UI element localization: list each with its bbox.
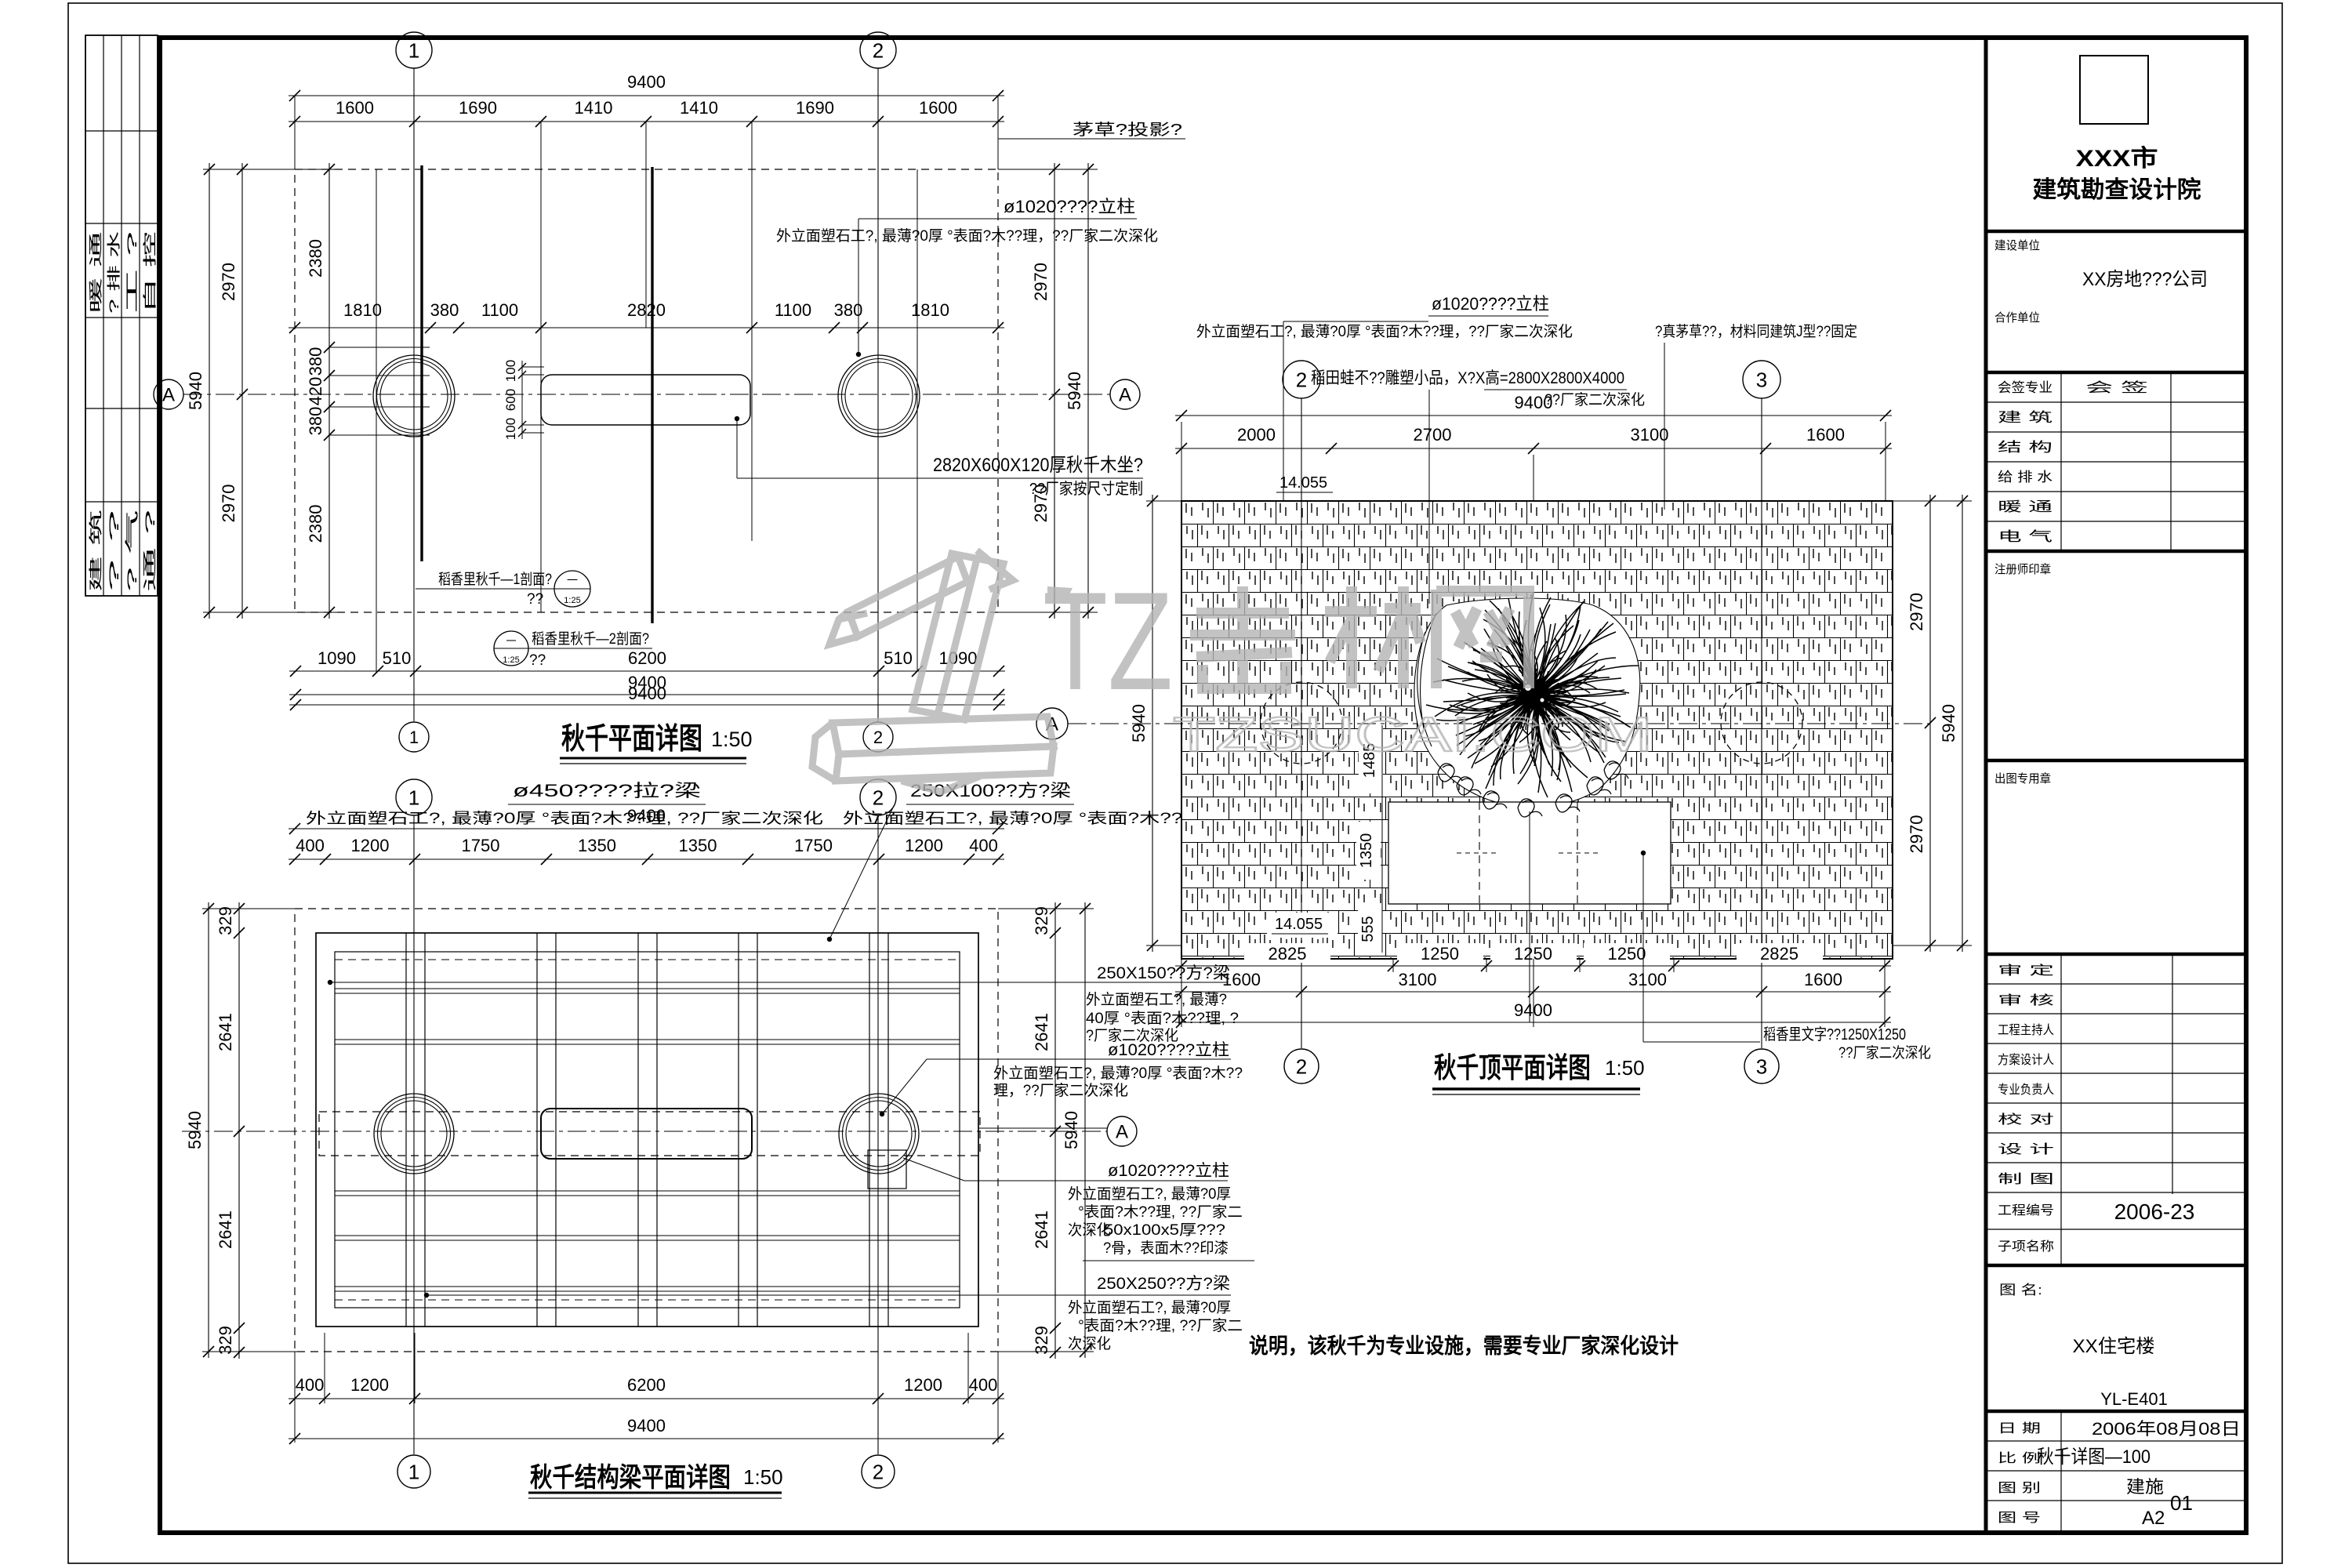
bottom dims d3 [1244, 943, 1330, 963]
svg-text:9400: 9400 [627, 1416, 666, 1436]
svg-text:250X150??方?梁: 250X150??方?梁 [1097, 964, 1230, 982]
svg-text:400: 400 [969, 836, 998, 855]
svg-text:工 ?: 工 ? [125, 231, 140, 314]
svg-text:2825: 2825 [1760, 944, 1798, 964]
svg-text:??厂家二次深化: ??厂家二次深化 [1544, 391, 1645, 408]
svg-text:ø1020????立柱: ø1020????立柱 [1004, 197, 1135, 216]
svg-text:1750: 1750 [794, 836, 833, 855]
svg-text:510: 510 [884, 648, 913, 668]
svg-text:? 气: ? 气 [125, 510, 140, 592]
svg-text:建 筑: 建 筑 [89, 510, 103, 592]
svg-text:TZ: TZ [1043, 563, 1173, 719]
left dim d3 [1152, 495, 1153, 952]
watermark fake glyph SU [1190, 586, 1529, 690]
svg-text:注册师印章: 注册师印章 [1994, 562, 2051, 576]
svg-text:3: 3 [1756, 368, 1767, 391]
svg-text:? 排 水: ? 排 水 [107, 231, 122, 314]
svg-text:合作单位: 合作单位 [1994, 311, 2040, 325]
svg-text:400: 400 [296, 1375, 325, 1395]
svg-text:380: 380 [430, 300, 459, 320]
svg-text:外立面塑石工?, 最薄?0厚 °表面?木??理，??厂家二次: 外立面塑石工?, 最薄?0厚 °表面?木??理，??厂家二次深化 [776, 227, 1158, 245]
svg-text:2006年08月08日: 2006年08月08日 [2092, 1419, 2241, 1439]
svg-text:5940: 5940 [1939, 704, 1958, 742]
svg-text:稻香里文字??1250X1250: 稻香里文字??1250X1250 [1763, 1025, 1906, 1044]
svg-text:1250: 1250 [1608, 944, 1646, 964]
svg-text:510: 510 [383, 648, 412, 668]
svg-text:?真茅草??，材料同建筑J型??固定: ?真茅草??，材料同建筑J型??固定 [1655, 323, 1857, 340]
svg-text:次深化: 次深化 [1068, 1335, 1111, 1352]
svg-text:会签专业: 会签专业 [1998, 380, 2053, 395]
svg-text:9400: 9400 [1515, 393, 1553, 412]
svg-text:9400: 9400 [627, 72, 666, 92]
svg-text:会 签: 会 签 [2085, 380, 2148, 395]
small rect at column 2 [868, 1150, 906, 1189]
svg-text:6200: 6200 [628, 648, 666, 668]
svg-text:建 筑: 建 筑 [1998, 410, 2053, 425]
svg-text:5940: 5940 [1065, 372, 1084, 410]
svg-text:9400: 9400 [627, 806, 666, 826]
svg-text:1100: 1100 [775, 300, 811, 320]
svg-text:2970: 2970 [219, 485, 238, 523]
white blob behind sculpture [1414, 598, 1640, 807]
right dims [1054, 163, 1055, 619]
svg-text:1600: 1600 [1804, 970, 1842, 989]
svg-text:一: 一 [567, 574, 578, 586]
bottom dims d2 [289, 1398, 1004, 1399]
svg-text:380: 380 [306, 407, 325, 436]
svg-text:100: 100 [503, 360, 518, 382]
center line sculpture [1529, 811, 1530, 1022]
svg-text:2380: 2380 [306, 239, 325, 278]
svg-text:理，??厂家二次深化: 理，??厂家二次深化 [993, 1082, 1128, 1099]
svg-text:5940: 5940 [1062, 1111, 1081, 1149]
white strips for inner dims [1359, 728, 1383, 793]
svg-text:A: A [1116, 1122, 1128, 1143]
right dims d2 [1054, 902, 1056, 1359]
top dims [289, 95, 1004, 96]
column 1 [373, 355, 455, 437]
svg-text:°表面?木??理, ??厂家二: °表面?木??理, ??厂家二 [1078, 1317, 1243, 1334]
svg-text:子项名称: 子项名称 [1998, 1240, 2054, 1254]
svg-text:1200: 1200 [350, 1375, 389, 1395]
svg-text:茅草?投影?: 茅草?投影? [1073, 121, 1182, 139]
svg-text:1600: 1600 [336, 98, 374, 118]
svg-text:电 气: 电 气 [1998, 529, 2053, 544]
svg-text:图 号: 图 号 [1998, 1511, 2041, 1525]
svg-text:ø1020????立柱: ø1020????立柱 [1108, 1041, 1229, 1059]
svg-text:一: 一 [506, 635, 516, 647]
svg-text:2970: 2970 [219, 263, 238, 301]
svg-text:A: A [1119, 385, 1131, 406]
svg-text:1690: 1690 [796, 98, 834, 118]
svg-text:2641: 2641 [1032, 1013, 1051, 1051]
svg-text:1250: 1250 [1421, 944, 1459, 964]
svg-text:3100: 3100 [1631, 425, 1669, 445]
svg-text:稻香里秋千—1剖面?: 稻香里秋千—1剖面? [438, 571, 552, 588]
svg-text:??厂家按尺寸定制: ??厂家按尺寸定制 [1029, 480, 1143, 498]
svg-text:暖 通: 暖 通 [89, 231, 103, 314]
svg-text:外立面塑石工?, 最薄?0厚: 外立面塑石工?, 最薄?0厚 [1068, 1299, 1231, 1316]
svg-text:1100: 1100 [481, 300, 518, 320]
svg-text:1350: 1350 [679, 836, 717, 855]
svg-text:1750: 1750 [462, 836, 500, 855]
svg-text:XXX市: XXX市 [2076, 145, 2158, 172]
svg-text:1810: 1810 [911, 300, 949, 320]
svg-text:01: 01 [2170, 1491, 2193, 1515]
svg-text:1600: 1600 [919, 98, 957, 118]
svg-text:秋千顶平面详图: 秋千顶平面详图 [1434, 1051, 1591, 1083]
svg-text:1: 1 [408, 786, 419, 809]
svg-text:设 计: 设 计 [1998, 1142, 2054, 1156]
svg-text:100: 100 [503, 418, 518, 440]
leader column right d2 [927, 1058, 1231, 1060]
svg-text:专业负责人: 专业负责人 [1998, 1083, 2054, 1097]
column 2 d2 [839, 1094, 919, 1174]
svg-text:图 名:: 图 名: [1999, 1283, 2042, 1298]
svg-text:外立面塑石工?, 最薄?0厚: 外立面塑石工?, 最薄?0厚 [1068, 1185, 1231, 1203]
grid bubbles d2 [396, 779, 432, 815]
leader 250x150 [328, 980, 332, 985]
svg-text:2: 2 [873, 728, 883, 747]
svg-text:A2: A2 [2142, 1508, 2165, 1529]
svg-text:自 控: 自 控 [143, 231, 158, 314]
svg-text:2380: 2380 [306, 505, 325, 543]
svg-text:外立面塑石工?, 最薄?0厚 °表面?木??理，??厂家二次: 外立面塑石工?, 最薄?0厚 °表面?木??理，??厂家二次深化 [1196, 323, 1573, 340]
svg-text:2641: 2641 [216, 1013, 235, 1051]
svg-text:工程主持人: 工程主持人 [1998, 1023, 2054, 1037]
svg-text:420: 420 [306, 377, 325, 406]
svg-text:外立面塑石工?, 最薄?0厚 °表面?木??理, ??厂家二: 外立面塑石工?, 最薄?0厚 °表面?木??理, ??厂家二次深化 [306, 810, 823, 827]
svg-text:329: 329 [216, 1326, 235, 1355]
grid lines d3 [1301, 398, 1302, 1048]
watermark group [812, 550, 1653, 792]
section cut line 2 [651, 167, 653, 623]
svg-text:9400: 9400 [628, 684, 666, 703]
svg-text:1:50: 1:50 [711, 728, 753, 751]
svg-text:日 期: 日 期 [1998, 1421, 2041, 1436]
center seat band [319, 1112, 980, 1156]
svg-text:秋千结构梁平面详图: 秋千结构梁平面详图 [530, 1463, 731, 1493]
svg-text:329: 329 [1032, 1326, 1051, 1355]
svg-text:1: 1 [409, 728, 419, 747]
svg-text:2820X600X120厚秋千木坐?: 2820X600X120厚秋千木坐? [933, 455, 1143, 476]
svg-text:2825: 2825 [1269, 944, 1307, 964]
svg-text:1200: 1200 [905, 836, 943, 855]
dashed columns below roof [1261, 682, 1342, 764]
svg-text:14.055: 14.055 [1275, 916, 1323, 933]
svg-text:3100: 3100 [1628, 970, 1667, 989]
svg-text:秋千详图—100: 秋千详图—100 [2037, 1446, 2151, 1468]
svg-text:校 对: 校 对 [1998, 1112, 2054, 1127]
svg-text:50x100x5厚???: 50x100x5厚??? [1104, 1222, 1225, 1239]
svg-text:方案设计人: 方案设计人 [1998, 1053, 2054, 1067]
svg-text:2641: 2641 [1032, 1210, 1051, 1249]
wood seat [541, 375, 750, 425]
svg-text:40厚 °表面?木??理, ?: 40厚 °表面?木??理, ? [1086, 1010, 1239, 1027]
svg-text:2: 2 [1296, 1054, 1307, 1078]
svg-text:结 构: 结 构 [1998, 440, 2053, 455]
svg-text:外立面塑石工?, 最薄?: 外立面塑石工?, 最薄? [1086, 991, 1227, 1008]
title block [1984, 38, 1988, 1533]
svg-text:??: ?? [527, 591, 543, 608]
left dims [209, 163, 210, 619]
svg-text:通 ?: 通 ? [143, 510, 158, 592]
svg-text:1200: 1200 [351, 836, 390, 855]
seat small dims [521, 361, 523, 439]
svg-text:2: 2 [1296, 368, 1307, 391]
svg-text:2000: 2000 [1237, 425, 1276, 445]
svg-text:比 例: 比 例 [1998, 1451, 2041, 1465]
svg-text:外立面塑石工?, 最薄?0厚 °表面?木??: 外立面塑石工?, 最薄?0厚 °表面?木?? [993, 1065, 1243, 1082]
section cut line 1 [420, 165, 423, 561]
sculpture base white rect [1388, 802, 1671, 904]
svg-text:329: 329 [1032, 906, 1051, 935]
extension verticals [376, 169, 377, 671]
svg-text:ø450????拉?梁: ø450????拉?梁 [513, 781, 701, 800]
svg-text:TZSUCAI.COM: TZSUCAI.COM [1173, 708, 1653, 762]
left signature strip [85, 35, 158, 596]
section label 1-1 [416, 588, 554, 590]
svg-text:3: 3 [1756, 1054, 1767, 1078]
svg-text:审 核: 审 核 [1998, 993, 2054, 1007]
top dims d2 [289, 828, 1004, 829]
svg-text:2641: 2641 [216, 1210, 235, 1249]
svg-text:出图专用章: 出图专用章 [1994, 771, 2051, 786]
roof dashed outline [295, 169, 998, 612]
leader daoxiangli text [1641, 851, 1646, 855]
svg-text:1410: 1410 [680, 98, 718, 118]
annotation: seat note [735, 416, 739, 421]
svg-text:说明，该秋千为专业设施，需要专业厂家深化设计: 说明，该秋千为专业设施，需要专业厂家深化设计 [1249, 1334, 1679, 1358]
roof dashed outline d2 [295, 909, 998, 1352]
svg-text:??: ?? [529, 652, 546, 669]
sculpture legs [1438, 761, 1628, 817]
svg-text:400: 400 [296, 836, 325, 855]
watermark logo : 3d numeral 1 [812, 550, 1054, 792]
svg-text:1:50: 1:50 [743, 1465, 783, 1489]
svg-text:工程编号: 工程编号 [1998, 1203, 2054, 1218]
svg-text:600: 600 [503, 389, 518, 411]
svg-text:稻香里秋千—2剖面?: 稻香里秋千—2剖面? [532, 630, 649, 648]
svg-text:1:25: 1:25 [503, 655, 519, 665]
svg-text:°表面?木??理, ??厂家二: °表面?木??理, ??厂家二 [1078, 1203, 1243, 1221]
grid lines [413, 68, 415, 721]
middle dim row [289, 327, 1004, 328]
grid lines d2 [413, 815, 415, 1454]
section label 2-2 [494, 631, 528, 666]
svg-text:2970: 2970 [1031, 263, 1051, 301]
svg-text:380: 380 [306, 347, 325, 376]
svg-text:A: A [162, 385, 175, 406]
svg-text:1: 1 [408, 1460, 419, 1483]
svg-text:暖 通: 暖 通 [1998, 499, 2053, 514]
vertical beams [405, 933, 407, 1327]
svg-text:1600: 1600 [1222, 970, 1261, 989]
svg-text:250X250??方?梁: 250X250??方?梁 [1097, 1275, 1230, 1293]
svg-text:5940: 5940 [186, 372, 205, 410]
svg-text:3100: 3100 [1399, 970, 1437, 989]
svg-text:1410: 1410 [575, 98, 613, 118]
roof hatched area [1181, 501, 1893, 959]
svg-text:2: 2 [873, 786, 884, 809]
flower center [1520, 680, 1550, 710]
svg-text:给 排 水: 给 排 水 [1998, 470, 2053, 485]
svg-text:329: 329 [216, 906, 235, 935]
svg-text:秋千平面详图: 秋千平面详图 [561, 723, 702, 756]
svg-text:稻田蛙不??雕塑小品，X?X高=2800X2800X4000: 稻田蛙不??雕塑小品，X?X高=2800X2800X4000 [1311, 369, 1624, 387]
svg-text:5940: 5940 [185, 1111, 205, 1149]
svg-text:审 定: 审 定 [1998, 964, 2054, 978]
horizontal joists [335, 988, 960, 989]
bottom dims [289, 670, 1005, 672]
svg-text:建施: 建施 [2126, 1477, 2164, 1497]
svg-text:XX房地???公司: XX房地???公司 [2082, 269, 2208, 290]
svg-text:1350: 1350 [578, 836, 616, 855]
svg-text:ø1020????立柱: ø1020????立柱 [1432, 294, 1549, 314]
grid bubbles d3 [1283, 361, 1320, 398]
svg-text:1:25: 1:25 [564, 596, 580, 605]
grid bubbles [396, 32, 432, 68]
company logo square [2080, 56, 2148, 124]
svg-text:6200: 6200 [627, 1375, 666, 1395]
svg-text:??厂家二次深化: ??厂家二次深化 [1838, 1044, 1931, 1062]
svg-text:2: 2 [873, 1460, 884, 1483]
column 2 [838, 355, 920, 437]
svg-text:400: 400 [969, 1375, 998, 1395]
svg-text:YL-E401: YL-E401 [2100, 1389, 2168, 1409]
sculpture flower scribble [1426, 592, 1639, 797]
svg-text:1090: 1090 [318, 648, 356, 668]
svg-text:1690: 1690 [459, 98, 497, 118]
svg-text:图 别: 图 别 [1998, 1481, 2041, 1495]
svg-text:建筑勘查设计院: 建筑勘查设计院 [2033, 176, 2201, 203]
top dims d3 [1175, 415, 1892, 416]
left dims d2 [208, 902, 209, 1358]
svg-text:2006-23: 2006-23 [2114, 1200, 2195, 1224]
column 1 d2 [374, 1094, 454, 1174]
svg-text:2700: 2700 [1414, 425, 1452, 445]
svg-text:2970: 2970 [1907, 593, 1926, 631]
svg-text:ø1020????立柱: ø1020????立柱 [1108, 1162, 1229, 1180]
svg-text:1600: 1600 [1806, 425, 1845, 445]
svg-text:建设单位: 建设单位 [1994, 239, 2040, 252]
perimeter beam [316, 933, 978, 1327]
svg-text:2: 2 [873, 38, 884, 62]
svg-text:1200: 1200 [904, 1375, 942, 1395]
svg-text:1:50: 1:50 [1605, 1056, 1645, 1080]
svg-text:1090: 1090 [939, 648, 978, 668]
svg-text:XX住宅楼: XX住宅楼 [2073, 1336, 2155, 1357]
right dims d3 [1929, 495, 1931, 952]
svg-text:? ?: ? ? [107, 510, 122, 592]
svg-text:制 图: 制 图 [1998, 1172, 2054, 1186]
svg-text:2970: 2970 [1907, 815, 1926, 854]
svg-text:?骨，表面木??印漆: ?骨，表面木??印漆 [1103, 1240, 1229, 1257]
svg-text:1350: 1350 [1358, 833, 1375, 869]
svg-text:1: 1 [408, 38, 419, 62]
svg-text:14.055: 14.055 [1279, 474, 1327, 492]
svg-text:555: 555 [1359, 916, 1377, 942]
